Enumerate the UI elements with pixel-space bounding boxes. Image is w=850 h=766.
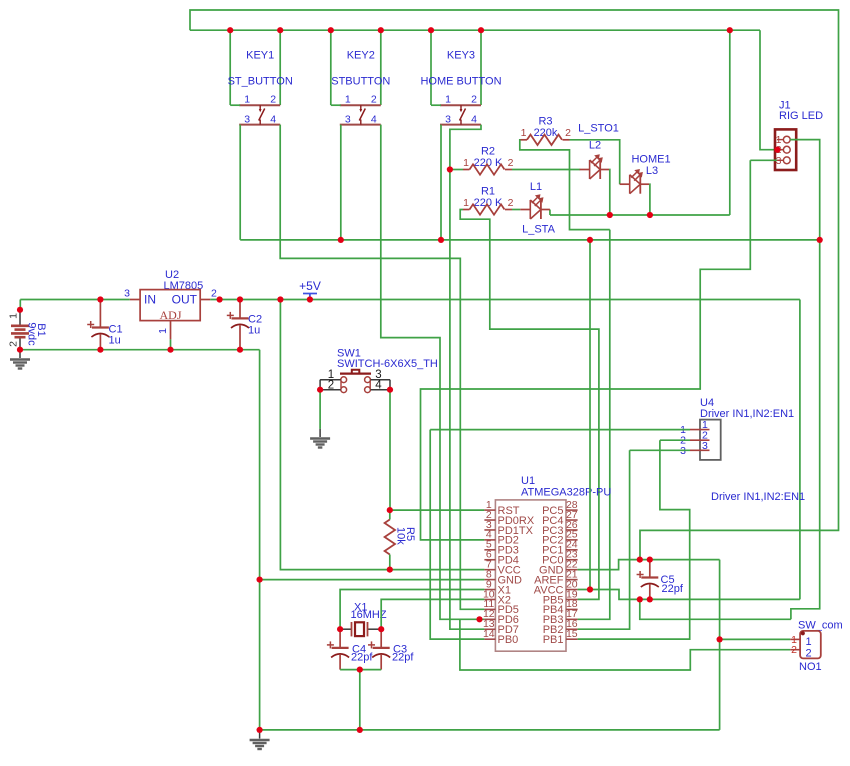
junction [338,237,344,243]
U1 pin 10 (X2) [483,588,511,606]
svg-text:ADJ: ADJ [159,308,181,322]
junction [217,296,223,302]
junction [647,596,653,602]
capacitor C2 1u [227,300,249,350]
wire +5V to VCC row7 [280,300,484,570]
svg-text:KEY1: KEY1 [246,50,274,62]
ground symbol (main bus) [250,730,270,749]
wire L1 out jog [549,210,551,216]
svg-text:3: 3 [124,288,130,300]
wire rail left segment [20,299,130,301]
U1 pin 19 (PB5) [543,588,578,606]
wire GND row8 [260,579,485,581]
U1 pin 26 (PC3) [542,519,578,537]
wire R1 pin2 to L1 [512,209,520,211]
wire key top column 5 [430,30,432,105]
wire +5V to C5 bottom row [799,300,801,600]
svg-text:ST_BUTTON: ST_BUTTON [228,76,293,88]
wire AVCC to C5 bottom row [578,590,800,600]
junction [317,387,323,393]
resistor R1 220 K [463,186,514,215]
+5V supply symbol [299,279,321,300]
svg-text:L2: L2 [589,140,601,152]
junction [237,347,243,353]
wire to J1 pin2 [760,30,783,150]
junction [378,626,384,632]
junction [357,727,363,733]
junction [637,557,643,563]
svg-text:L_STA: L_STA [522,224,555,236]
wire key top column 3 [330,30,332,105]
svg-text:R3: R3 [538,116,552,128]
wire key top column 2 [279,30,281,105]
wire x730 drop [729,30,731,215]
junction [378,27,384,33]
wire KEY1 pin3 column [239,125,241,240]
wire J1 pin1 to right rail [790,140,820,620]
pushbutton KEY1 (ST_BUTTON) [228,50,293,126]
svg-text:2: 2 [371,94,377,106]
svg-text:3: 3 [702,440,708,452]
svg-text:1: 1 [521,127,527,139]
wire GND top bus loop [190,10,839,560]
svg-text:NO1: NO1 [799,661,822,673]
wire L2 cathode drop [608,170,611,216]
svg-text:1: 1 [463,157,469,169]
wire KEY3 pin4 to PD7 [450,125,485,630]
wire R2 pin1 [450,169,463,171]
svg-text:3: 3 [345,113,351,125]
svg-text:Driver IN1,IN2:EN1: Driver IN1,IN2:EN1 [700,408,794,420]
wire x720 vertical [719,560,721,730]
svg-text:R2: R2 [481,146,495,158]
U1 pin 6 (PD4) [484,549,519,567]
LED L2 (L_STO1) [580,154,610,179]
wire X1 to U1 pin9 [340,590,484,630]
junction [227,27,233,33]
junction [774,147,780,153]
svg-text:2: 2 [508,157,514,169]
svg-text:RIG LED: RIG LED [779,110,823,122]
capacitor C3 22pf [368,629,390,669]
svg-text:4: 4 [375,380,382,392]
svg-text:KEY3: KEY3 [447,50,475,62]
wire U4 pin2 row [660,439,690,441]
svg-text:KEY2: KEY2 [347,50,375,62]
junction [328,27,334,33]
U1 pin 8 (GND) [484,568,522,586]
wire caps to gnd bus [359,670,361,730]
LED L3 (HOME1) [620,169,650,194]
U1 pin 16 (PB2) [543,618,578,636]
svg-text:2: 2 [270,94,276,106]
U1 pin 13 (PD7) [483,618,519,636]
svg-text:L_STO1: L_STO1 [578,123,619,135]
junction [17,307,23,313]
svg-text:1: 1 [445,94,451,106]
svg-text:ATMEGA328P-PU: ATMEGA328P-PU [521,487,611,499]
svg-text:2: 2 [565,127,571,139]
U1 pin 1 (RST) [484,499,519,517]
U1 pin 25 (PC2) [542,529,578,547]
wire U4 pin1 row [430,429,690,431]
U1 pin 18 (PB4) [543,598,578,616]
U1 pin 3 (PD1TX) [484,519,533,537]
svg-text:22pf: 22pf [662,583,684,595]
junction [387,387,393,393]
svg-text:10k: 10k [395,527,407,545]
junction [428,27,434,33]
junction [97,347,103,353]
U1 pin 21 (AREF) [534,568,578,586]
svg-text:OUT: OUT [172,293,198,307]
U1 pin 9 (X1) [484,578,511,596]
U1 pin 20 (AVCC) [534,578,578,596]
svg-text:2: 2 [211,288,217,300]
wire C4-C3 bottom [340,669,381,671]
svg-text:4: 4 [471,113,477,125]
svg-text:L3: L3 [646,165,658,177]
svg-text:Driver IN1,IN2:EN1: Driver IN1,IN2:EN1 [711,491,805,503]
svg-text:1u: 1u [248,325,260,337]
wire ADJ to gnd bus [170,339,172,349]
junction [257,577,263,583]
U1 pin 7 (VCC) [484,558,520,576]
U1 pin 5 (PD3) [484,539,519,557]
battery B1 9vdc [8,310,48,350]
junction [817,237,823,243]
junction [647,557,653,563]
junction [476,616,482,622]
wire RST row1 [390,509,485,511]
wire LED cathode rail y215 [550,214,730,216]
ground symbol (SW1) [310,429,330,448]
junction [647,212,653,218]
junction [97,296,103,302]
svg-text:3: 3 [445,113,451,125]
junction [387,567,393,573]
capacitor C5 22pf [637,560,659,600]
junction [257,727,263,733]
wire KEY3 pin3 column [440,125,442,240]
svg-text:U1: U1 [521,475,535,487]
svg-text:22pf: 22pf [392,652,414,664]
U1 pin 28 (PC5) [542,499,578,517]
svg-text:4: 4 [270,113,276,125]
svg-text:HOME BUTTON: HOME BUTTON [420,76,501,88]
capacitor C1 1u [87,300,109,350]
wire SW_com pin1 [720,638,791,640]
junction [237,296,243,302]
wire R3 pin1 jog [520,140,610,230]
junction [717,636,723,642]
svg-text:3: 3 [244,113,250,125]
svg-text:1: 1 [157,328,169,334]
voltage regulator U2 LM7805 [124,269,217,339]
svg-text:2: 2 [8,341,20,347]
U1 pin 24 (PC1) [542,539,578,557]
wire KEY2 pin1 link [331,104,341,106]
wire KEY2 pin3 column [340,125,342,240]
junction [167,347,173,353]
svg-text:1: 1 [463,197,469,209]
wire KEY1 pin4 to PD5 [280,125,484,610]
wire U4 pin1 to PB0 [430,430,484,639]
junction [277,296,283,302]
capacitor C4 22pf [327,629,349,669]
svg-text:IN: IN [144,293,156,307]
svg-text:L1: L1 [530,181,542,193]
junction [727,27,733,33]
LED L1 (L_STA) [520,194,550,219]
svg-text:2: 2 [508,197,514,209]
junction [587,586,593,592]
wire KEY2 pin4 to PD6 [381,125,485,620]
connector U4 Driver IN1,IN2:EN1 [680,397,794,460]
wire key top column 1 [229,30,231,105]
wire SW1 to R5/RST [389,390,391,510]
wire KEY3 pin1 link [431,104,441,106]
wire X2 to U1 pin10 [381,599,484,629]
U1 pin 4 (PD2) [484,529,519,547]
U1 pin 22 (GND) [539,558,578,576]
wire KEY1 pin1 link [230,104,240,106]
svg-text:2: 2 [806,647,812,659]
wire x590 vertical [589,240,591,590]
svg-text:+5V: +5V [299,279,321,293]
resistor R3 220k [521,116,572,146]
wire gnd bus y350 [20,349,260,351]
wire J1 pin3 to PD2 [421,160,751,540]
wire AVCC net to J1 rail [640,599,791,619]
U1 pin 2 (PD0RX) [484,509,534,527]
resistor R2 220 K [463,146,514,175]
svg-text:1u: 1u [109,335,121,347]
junction [478,27,484,33]
wire U4 pin2 to PB1 [578,440,690,639]
resistor R5 10k [385,510,416,569]
svg-text:15: 15 [566,628,578,640]
junction [337,626,343,632]
svg-text:9vdc: 9vdc [26,322,38,346]
svg-text:HOME1: HOME1 [631,154,670,166]
pushbutton KEY2 (STBUTTON) [331,50,390,126]
svg-text:PB0: PB0 [498,634,519,646]
wire U4 pin3 row [630,449,690,451]
wire +5V rail [210,299,800,301]
svg-text:2: 2 [791,644,797,656]
svg-text:PB1: PB1 [543,634,564,646]
svg-text:4: 4 [371,113,377,125]
connector J1 RIG LED [775,100,823,171]
U1 pin 14 (PB0) [483,628,518,646]
wire U4 pin3 to PB2 [578,450,630,629]
wire R3 pin2 to L3 [570,140,620,184]
svg-text:SWITCH-6X6X5_TH: SWITCH-6X6X5_TH [337,358,438,370]
pushbutton KEY3 (HOME BUTTON) [420,50,501,126]
junction [307,296,313,302]
wire R1 pin1 to PB5 [460,210,599,600]
U1 pin 15 (PB1) [543,628,578,646]
svg-text:2: 2 [328,380,334,392]
crystal X1 16MHZ [340,602,387,637]
svg-text:1: 1 [244,94,250,106]
wire x610 to PB3 [578,230,610,620]
wire PD6 to SW_com pin2 [460,619,790,670]
svg-text:1: 1 [806,636,812,648]
svg-text:2: 2 [471,94,477,106]
wire key top column 6 [480,30,482,105]
svg-text:SW_com: SW_com [798,620,843,632]
svg-text:14: 14 [483,628,495,640]
U1 pin 11 (PD5) [483,598,519,616]
wire x260 vertical [259,350,261,730]
wire SW1 to ground [319,390,321,429]
U1 pin 12 (PD6) [483,608,519,626]
wire common net y240 [240,239,820,241]
svg-text:STBUTTON: STBUTTON [331,76,390,88]
U1 pin 27 (PC4) [542,509,578,527]
wire R2 pin2 to L2 [512,169,580,171]
svg-text:R1: R1 [481,186,495,198]
junction [357,667,363,673]
wire J1 pin3 [750,159,777,161]
ground symbol (battery) [10,350,30,369]
wire L3 cathode drop [648,184,651,215]
svg-text:1: 1 [8,313,20,319]
junction [637,596,643,602]
switch SW1 SWITCH-6X6X5_TH [320,348,438,393]
junction [447,166,453,172]
wire battery pos [19,300,21,310]
IC U1 ATMEGA328P-PU [483,475,611,651]
wire GND pin22 to C5 top [578,560,720,570]
junction [438,237,444,243]
svg-text:1: 1 [345,94,351,106]
wire bottom gnd bus [260,729,720,731]
U1 pin 23 (PC0) [542,549,578,567]
svg-text:22pf: 22pf [351,652,373,664]
junction [387,507,393,513]
connector SW_com NO1 [790,620,842,673]
junction [607,212,613,218]
U1 pin 17 (PB3) [543,608,578,626]
wire key top column 4 [380,30,382,105]
junction [277,27,283,33]
junction [587,237,593,243]
wire GND bus y30 [190,29,760,31]
junction [17,347,23,353]
